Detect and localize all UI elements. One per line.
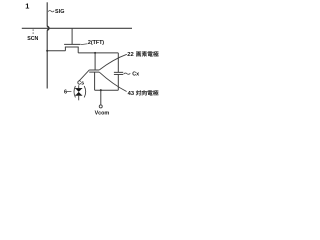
junction dot SIG/source bbox=[46, 50, 48, 52]
Cs bottom bar bbox=[75, 94, 82, 96]
SIG label leader (tilde) bbox=[48, 10, 54, 11]
capacitor Cx top plate bbox=[114, 71, 123, 73]
signal line SIG (vertical) bbox=[46, 2, 48, 26]
Vcom terminal circle bbox=[99, 105, 102, 108]
capacitor Cx bottom plate bbox=[114, 73, 123, 75]
label 6 leader dash bbox=[67, 91, 72, 93]
right branch vertical (lower, Cx to rail) bbox=[117, 74, 119, 90]
svg-text:1: 1 bbox=[25, 2, 29, 11]
LC element bottom plate (counter electrode) bbox=[89, 71, 99, 73]
svg-text:43: 43 bbox=[128, 91, 135, 97]
TFT 2 : drain drop bbox=[77, 47, 79, 53]
Cs top bar bbox=[75, 88, 82, 90]
LC element top plate (pixel electrode) bbox=[89, 69, 99, 71]
TFT 2 : channel bar bbox=[65, 46, 79, 48]
Cs bottom lead bbox=[78, 95, 80, 100]
pixel electrode curve + leader to 22 bbox=[99, 54, 127, 70]
junction dot Vcom tap bbox=[100, 89, 102, 91]
drain wire (pixel node) bbox=[78, 52, 118, 54]
svg-text:Vcom: Vcom bbox=[95, 111, 110, 117]
right branch vertical (upper, to Cx) bbox=[117, 53, 119, 72]
TFT 2 : source drop bbox=[64, 47, 66, 51]
scan line SCN (horizontal) bbox=[22, 27, 132, 29]
svg-text:22: 22 bbox=[127, 52, 133, 58]
crossover hop of SIG over SCN bbox=[47, 26, 49, 30]
svg-text:SIG: SIG bbox=[55, 9, 65, 15]
Vcom rail bbox=[95, 89, 119, 91]
TFT 2 : gate bar bbox=[64, 43, 81, 45]
Vcom tap vertical bbox=[100, 90, 102, 105]
Cs left parenthesis bbox=[74, 86, 75, 97]
Cs hourglass triangles bbox=[76, 89, 82, 95]
svg-text:SCN: SCN bbox=[27, 36, 38, 42]
Cs vertical lead below label bbox=[78, 85, 80, 88]
storage capacitor Cs : top diagonal lead bbox=[79, 70, 89, 81]
pixel node vertical to LC top plate bbox=[94, 53, 96, 70]
junction dot pixel node bbox=[94, 52, 96, 54]
Cx label leader (tilde) bbox=[124, 73, 131, 74]
svg-text:Cx: Cx bbox=[132, 71, 139, 77]
svg-text:2(TFT): 2(TFT) bbox=[88, 40, 104, 46]
source wire to SIG bbox=[47, 50, 65, 52]
counter electrode curve + leader to 43 bbox=[99, 72, 126, 91]
svg-text:6: 6 bbox=[64, 89, 67, 95]
SCN label leader (dashed) bbox=[32, 29, 34, 35]
label 2(TFT) leader bbox=[81, 43, 88, 46]
LC bottom plate vertical to rail bbox=[94, 72, 96, 90]
svg-text:Cs: Cs bbox=[77, 81, 84, 87]
TFT 2 : gate lead bbox=[71, 28, 73, 44]
Cs right parenthesis bbox=[84, 86, 86, 97]
